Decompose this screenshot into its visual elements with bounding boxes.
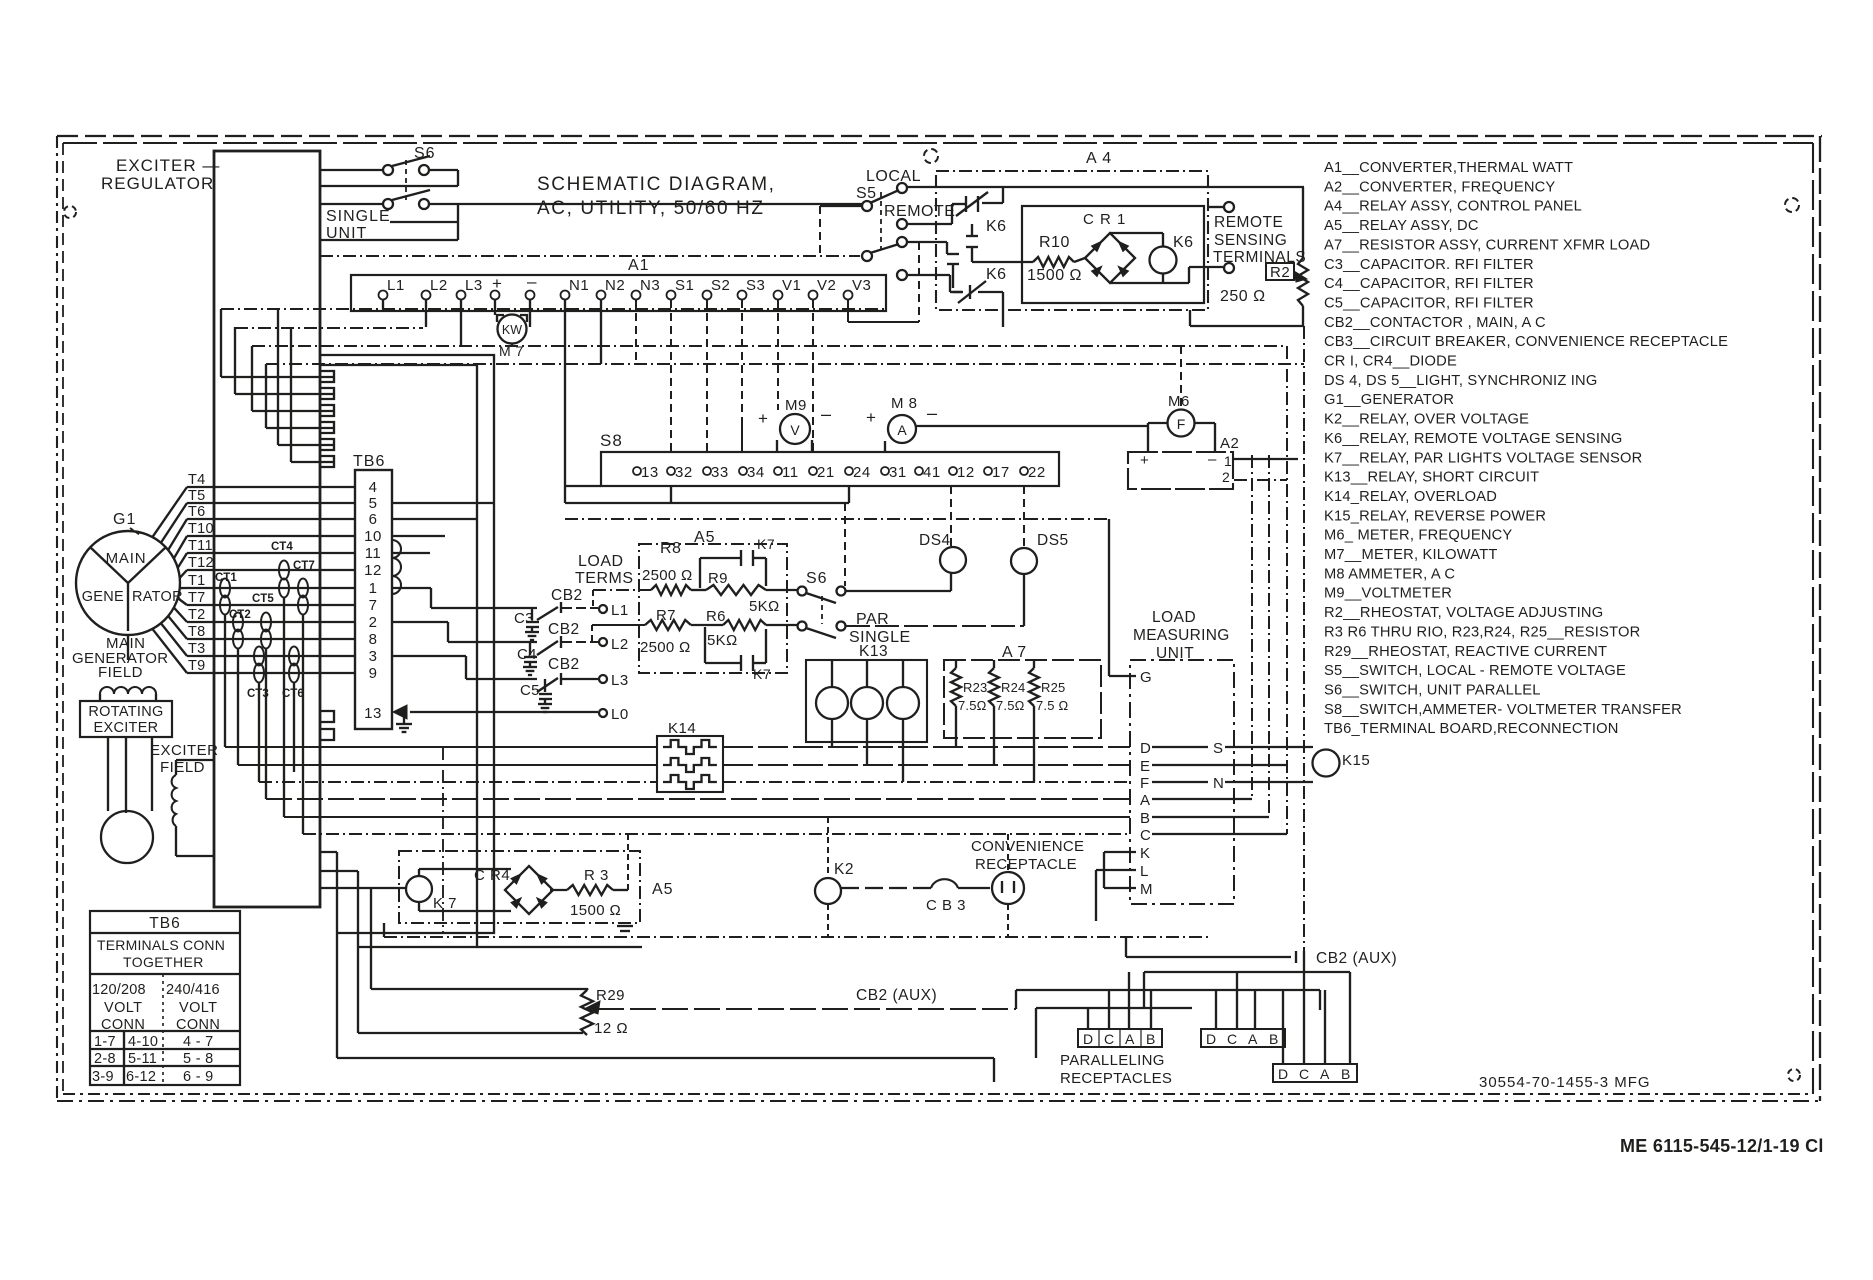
svg-text:RECEPTACLES: RECEPTACLES <box>1060 1070 1172 1087</box>
wire bus y519 <box>565 518 1109 520</box>
svg-text:R8: R8 <box>660 540 681 557</box>
wire LMU G feed <box>1108 519 1110 676</box>
wire T9 <box>187 672 355 674</box>
svg-text:R2__RHEOSTAT, VOLTAGE ADJUSTI: R2__RHEOSTAT, VOLTAGE ADJUSTING <box>1324 605 1603 621</box>
wire right bus 1304 <box>1303 326 1305 951</box>
relay contact K7 lower <box>740 655 742 671</box>
exciter field coil <box>176 759 214 761</box>
svg-text:A5: A5 <box>694 529 716 546</box>
svg-text:K6: K6 <box>986 218 1007 235</box>
svg-text:A2: A2 <box>1220 435 1239 452</box>
svg-text:L1: L1 <box>611 602 629 619</box>
svg-text:CB2__CONTACTOR , MAIN, A C: CB2__CONTACTOR , MAIN, A C <box>1324 315 1546 331</box>
svg-text:C4__CAPACITOR, RFI FILTER: C4__CAPACITOR, RFI FILTER <box>1324 276 1534 292</box>
relay coil K6 <box>1150 247 1177 274</box>
wire A4 to terminals <box>1189 310 1191 326</box>
svg-text:LOAD: LOAD <box>578 553 624 570</box>
wire bus K <box>320 851 337 853</box>
wire CT6 secondary <box>293 682 295 772</box>
wire exciter leads <box>107 737 109 811</box>
svg-text:A2__CONVERTER, FREQUENCY: A2__CONVERTER, FREQUENCY <box>1324 179 1555 195</box>
current transformer CT2 <box>233 613 243 632</box>
wire bus y1008 <box>1036 1007 1192 1009</box>
svg-text:K: K <box>1140 845 1150 862</box>
svg-text:CT4: CT4 <box>271 541 293 553</box>
wire + to M7 <box>494 300 496 315</box>
svg-text:EXCITER —: EXCITER — <box>116 156 220 175</box>
svg-text:21: 21 <box>817 464 835 481</box>
current transformer CT7 <box>298 579 308 598</box>
svg-text:4-10: 4-10 <box>128 1034 158 1050</box>
wire T12 <box>187 569 355 571</box>
circuit breaker CB3 <box>931 879 958 888</box>
svg-text:V2: V2 <box>817 277 836 294</box>
svg-text:CT1: CT1 <box>215 572 237 584</box>
polarity mark <box>617 925 633 927</box>
svg-text:N2: N2 <box>605 277 625 294</box>
svg-text:A1__CONVERTER,THERMAL WATT: A1__CONVERTER,THERMAL WATT <box>1324 160 1573 176</box>
wire nest into regulator <box>220 309 222 377</box>
wire L1 drop <box>382 300 384 309</box>
wire S5 pole2 contact b <box>907 274 950 276</box>
svg-text:S8: S8 <box>600 431 623 450</box>
svg-text:CB2: CB2 <box>551 587 583 604</box>
wire LMU A row <box>1152 798 1252 800</box>
contactor CB2 aux contact <box>1126 956 1291 958</box>
svg-text:K14_RELAY, OVERLOAD: K14_RELAY, OVERLOAD <box>1324 489 1497 505</box>
wire bus y364 <box>266 363 1304 365</box>
svg-text:VOLT: VOLT <box>179 1000 217 1016</box>
relay contact K6 no.2 <box>966 235 978 237</box>
wire LMU E row <box>1152 764 1287 766</box>
svg-text:A1: A1 <box>628 257 650 274</box>
svg-text:R29__RHEOSTAT, REACTIVE CURR: R29__RHEOSTAT, REACTIVE CURRENT <box>1324 644 1607 660</box>
svg-text:DS5: DS5 <box>1037 532 1069 549</box>
svg-text:T2: T2 <box>188 607 206 623</box>
svg-text:–: – <box>1208 451 1217 468</box>
svg-text:R 3: R 3 <box>584 867 609 884</box>
svg-text:–: – <box>527 272 537 291</box>
wire S6mid drop <box>844 503 846 586</box>
wire R29 wiper <box>598 1008 1016 1010</box>
wire A2-2 <box>1234 479 1287 481</box>
svg-text:K 7: K 7 <box>433 895 457 912</box>
svg-text:K2__RELAY, OVER VOLTAGE: K2__RELAY, OVER VOLTAGE <box>1324 412 1529 428</box>
svg-text:T9: T9 <box>188 658 206 674</box>
wire N to K15 <box>1225 781 1313 783</box>
wire TB6-1 to CB2 L1 <box>392 587 431 589</box>
svg-text:5 - 8: 5 - 8 <box>183 1051 214 1067</box>
relay contact K6 no.3 <box>947 253 959 255</box>
wire bus y327 <box>235 327 423 329</box>
svg-text:T3: T3 <box>188 641 206 657</box>
wire bus y346 <box>252 345 1287 347</box>
wire V1 drop to S8-11 <box>777 300 779 410</box>
svg-text:L2: L2 <box>611 636 629 653</box>
svg-text:C3: C3 <box>514 610 534 627</box>
svg-text:5KΩ: 5KΩ <box>749 598 779 615</box>
svg-text:RECEPTACLE: RECEPTACLE <box>975 856 1077 873</box>
wire L3 lead <box>466 678 537 680</box>
svg-text:M6_ METER, FREQUENCY: M6_ METER, FREQUENCY <box>1324 528 1512 544</box>
wire K13 drops <box>831 719 833 747</box>
svg-text:R10: R10 <box>1039 234 1070 251</box>
svg-text:V1: V1 <box>782 277 801 294</box>
svg-text:8: 8 <box>369 631 378 648</box>
svg-text:C5__CAPACITOR, RFI FILTER: C5__CAPACITOR, RFI FILTER <box>1324 295 1534 311</box>
TB6 13 arrow and ground <box>393 705 407 719</box>
wire T4 <box>187 486 355 488</box>
svg-text:R9: R9 <box>708 570 728 587</box>
wire L2 drop <box>425 300 427 327</box>
relay contact K6 no.1 <box>965 196 967 212</box>
wire CT2 secondary <box>237 648 239 765</box>
svg-text:M6: M6 <box>1168 393 1190 410</box>
wire L1 lead <box>431 607 537 609</box>
wire bus B <box>284 816 1130 818</box>
wire S6 to DS4 <box>846 590 951 592</box>
svg-text:3-9: 3-9 <box>92 1069 114 1085</box>
svg-text:REGULATOR: REGULATOR <box>101 174 214 193</box>
svg-text:22: 22 <box>1028 464 1046 481</box>
svg-text:TB6: TB6 <box>353 453 385 470</box>
svg-text:M9__VOLTMETER: M9__VOLTMETER <box>1324 586 1452 602</box>
wire S1 drop to S8-32 <box>670 300 672 452</box>
svg-text:B: B <box>1341 1066 1350 1082</box>
svg-text:17: 17 <box>992 464 1010 481</box>
svg-text:2: 2 <box>369 614 378 631</box>
svg-text:D: D <box>1140 740 1151 757</box>
svg-text:CB2 (AUX): CB2 (AUX) <box>856 987 937 1004</box>
svg-text:FIELD: FIELD <box>98 664 143 681</box>
svg-text:6-12: 6-12 <box>126 1069 156 1085</box>
svg-text:41: 41 <box>923 464 941 481</box>
wire under A5 dc <box>477 946 642 948</box>
relay assembly A4 box <box>936 171 1208 310</box>
wire L1 to R8 <box>592 590 594 608</box>
wire bus D <box>225 746 657 748</box>
relay contact K7 upper <box>740 550 742 566</box>
svg-text:A 4: A 4 <box>1086 150 1112 167</box>
S5 linkage <box>880 192 882 250</box>
resistor R24 <box>989 668 999 706</box>
svg-text:G: G <box>1140 669 1152 686</box>
svg-text:F: F <box>1177 416 1186 432</box>
svg-text:A7__RESISTOR ASSY, CURRENT X: A7__RESISTOR ASSY, CURRENT XFMR LOAD <box>1324 237 1650 253</box>
svg-text:5-11: 5-11 <box>128 1051 157 1067</box>
terminal L2 <box>599 638 607 646</box>
svg-text:RATOR: RATOR <box>132 589 183 605</box>
wire V3 drop <box>847 300 849 322</box>
svg-text:K13__RELAY, SHORT CIRCUIT: K13__RELAY, SHORT CIRCUIT <box>1324 470 1539 486</box>
wire N3 drop <box>635 300 637 364</box>
svg-text:TB6_TERMINAL BOARD,RECONNECTI: TB6_TERMINAL BOARD,RECONNECTION <box>1324 721 1619 737</box>
svg-text:M7__METER, KILOWATT: M7__METER, KILOWATT <box>1324 547 1498 563</box>
svg-text:240/416: 240/416 <box>166 982 220 998</box>
connector tabs on exciter-regulator <box>320 371 334 382</box>
svg-text:A 7: A 7 <box>1002 644 1027 661</box>
svg-text:TERMINALS CONN: TERMINALS CONN <box>97 937 225 953</box>
svg-text:7.5Ω: 7.5Ω <box>996 698 1025 713</box>
svg-text:30554-70-1455-3 MFG: 30554-70-1455-3 MFG <box>1479 1074 1651 1091</box>
wire T2 <box>187 621 355 623</box>
svg-text:CB2: CB2 <box>548 656 580 673</box>
svg-text:–: – <box>821 404 831 424</box>
wire right bus 1252 <box>1251 455 1253 799</box>
wire V2 drop to S8-21 <box>812 300 814 452</box>
svg-text:B: B <box>1269 1031 1278 1047</box>
svg-text:VOLT: VOLT <box>104 1000 142 1016</box>
svg-text:C4: C4 <box>517 646 537 663</box>
svg-text:A: A <box>897 422 907 438</box>
wire CT4 secondary <box>283 597 285 817</box>
wire K6 contact1 drop <box>1002 187 1004 203</box>
wire S8-32 drop <box>670 486 672 503</box>
wire N1 drop <box>564 300 566 503</box>
wire TB6-2 to CB2 L2 <box>392 621 448 623</box>
svg-text:T10: T10 <box>188 521 214 537</box>
wire K L M stubs <box>1104 851 1136 853</box>
svg-text:R29: R29 <box>596 987 625 1004</box>
svg-text:5: 5 <box>369 495 378 512</box>
svg-text:V: V <box>790 422 800 438</box>
wire K7 top <box>418 869 420 876</box>
svg-text:3: 3 <box>369 648 378 665</box>
wire S6 to DS5 <box>846 625 1024 627</box>
wire T11 <box>187 552 355 554</box>
svg-text:C: C <box>1140 827 1151 844</box>
wire T6 <box>187 518 355 520</box>
wire bus E <box>238 764 657 766</box>
svg-text:T1: T1 <box>188 573 206 589</box>
svg-text:A5: A5 <box>652 881 674 898</box>
svg-text:10: 10 <box>364 528 382 545</box>
svg-text:R2: R2 <box>1270 264 1290 281</box>
svg-text:T6: T6 <box>188 504 206 520</box>
svg-text:FIELD: FIELD <box>160 759 205 776</box>
svg-text:1-7: 1-7 <box>94 1034 116 1050</box>
svg-text:11: 11 <box>365 545 382 562</box>
wire A7 drops <box>955 706 957 747</box>
terminal L3 <box>599 675 607 683</box>
wire T5 <box>187 502 355 504</box>
svg-text:EXCITER: EXCITER <box>94 720 159 736</box>
svg-text:L3: L3 <box>465 277 483 294</box>
svg-text:7.5 Ω: 7.5 Ω <box>1036 698 1068 713</box>
wire R3 up <box>613 889 628 891</box>
wire CT3 secondary <box>258 682 260 782</box>
wire L2 to R7 <box>591 625 593 642</box>
svg-text:S: S <box>1213 740 1223 757</box>
svg-text:D: D <box>1206 1031 1216 1047</box>
svg-text:12: 12 <box>957 464 975 481</box>
svg-text:12: 12 <box>364 562 382 579</box>
svg-text:TB6: TB6 <box>149 915 180 932</box>
svg-text:TERMS: TERMS <box>575 570 634 587</box>
svg-text:ROTATING: ROTATING <box>88 704 163 720</box>
paralleling receptacle 2 <box>1201 1029 1285 1047</box>
wire T10 <box>187 535 355 537</box>
svg-text:T5: T5 <box>188 488 206 504</box>
wire S6 pole2 <box>320 203 383 205</box>
svg-text:2500 Ω: 2500 Ω <box>642 567 693 584</box>
exciter-regulator block <box>214 151 320 907</box>
relay assembly A5 dc box <box>399 851 640 923</box>
svg-text:31: 31 <box>889 464 907 481</box>
svg-text:1: 1 <box>369 580 378 597</box>
svg-text:K2: K2 <box>834 861 854 878</box>
wire CT5 secondary <box>265 648 267 799</box>
svg-text:C: C <box>1299 1066 1309 1082</box>
svg-text:CR I, CR4__DIODE: CR I, CR4__DIODE <box>1324 354 1457 370</box>
terminal L1 <box>599 605 607 613</box>
relay assembly A5 box <box>639 544 787 673</box>
svg-text:S3: S3 <box>746 277 765 294</box>
relay K15 reverse power <box>1313 750 1340 777</box>
wire S to K15 <box>1225 746 1313 748</box>
svg-text:PARALLELING: PARALLELING <box>1060 1052 1165 1069</box>
svg-text:1: 1 <box>1224 453 1232 469</box>
A1 terminals <box>379 291 388 300</box>
svg-text:32: 32 <box>675 464 693 481</box>
svg-text:F: F <box>1140 775 1149 792</box>
S6 linkage <box>405 160 407 200</box>
svg-text:A: A <box>1248 1031 1258 1047</box>
svg-text:24: 24 <box>853 464 871 481</box>
TB6 inductor jumpers <box>392 540 401 594</box>
svg-text:S1: S1 <box>675 277 694 294</box>
wire CT1 secondary <box>224 614 226 747</box>
svg-text:AC, UTILITY, 50/60 HZ: AC, UTILITY, 50/60 HZ <box>537 198 765 219</box>
wire DS5 drop <box>1023 486 1025 548</box>
svg-text:B: B <box>1146 1031 1155 1047</box>
wire R2 bottom bus <box>1190 325 1303 327</box>
wire T8 <box>187 638 355 640</box>
svg-text:7.5Ω: 7.5Ω <box>958 698 987 713</box>
svg-text:A: A <box>1320 1066 1330 1082</box>
svg-text:K15_RELAY, REVERSE POWER: K15_RELAY, REVERSE POWER <box>1324 508 1546 524</box>
wire S5 pole2 contact a <box>907 241 947 243</box>
svg-text:7: 7 <box>369 597 378 614</box>
svg-text:CONVENIENCE: CONVENIENCE <box>971 838 1084 855</box>
svg-text:R23: R23 <box>963 680 987 695</box>
svg-text:EXCITER: EXCITER <box>150 742 219 759</box>
current transformer CT6 <box>289 647 299 666</box>
svg-text:TOGETHER: TOGETHER <box>123 954 204 970</box>
svg-text:R3 R6 THRU RIO, R23,R24, R2: R3 R6 THRU RIO, R23,R24, R25__RESISTOR <box>1324 624 1640 640</box>
svg-text:K15: K15 <box>1342 752 1370 769</box>
svg-text:R6: R6 <box>706 608 726 625</box>
rheostat R2 <box>1266 263 1294 280</box>
wire bus y309 <box>221 308 886 310</box>
svg-text:L2: L2 <box>430 277 448 294</box>
wire bus y937 <box>384 936 1208 938</box>
svg-text:C B 3: C B 3 <box>926 897 966 914</box>
svg-text:+: + <box>492 274 502 293</box>
svg-text:T12: T12 <box>188 555 214 571</box>
svg-text:L1: L1 <box>387 277 405 294</box>
wire wrap path 2 <box>321 365 477 947</box>
svg-text:N3: N3 <box>640 277 660 294</box>
current transformer CT4 <box>279 561 289 580</box>
generator T leads <box>152 487 187 537</box>
svg-text:D: D <box>1083 1031 1093 1047</box>
svg-text:K6: K6 <box>986 266 1007 283</box>
svg-text:11: 11 <box>782 464 799 481</box>
svg-text:12 Ω: 12 Ω <box>594 1020 628 1037</box>
svg-text:S6: S6 <box>806 570 828 587</box>
svg-text:M8 AMMETER, A C: M8 AMMETER, A C <box>1324 566 1455 582</box>
resistor R23 <box>951 668 961 706</box>
wire T3 <box>187 655 355 657</box>
S8 terminals <box>633 467 641 475</box>
wire contact4 to A4 bottom <box>1002 292 1004 310</box>
wire M8 to right <box>916 425 1148 427</box>
wire TB6-3 to CB2 L3 <box>392 655 466 657</box>
wire T7 <box>187 604 355 606</box>
wire L2 lead <box>448 641 537 643</box>
wire nest verticals lower <box>277 308 279 310</box>
A4 inner box <box>1022 206 1204 303</box>
svg-text:K14: K14 <box>668 720 696 737</box>
svg-text:C R 1: C R 1 <box>1083 211 1126 228</box>
svg-text:GENE: GENE <box>82 589 124 605</box>
svg-text:REMOTE: REMOTE <box>884 203 955 220</box>
wire bus L <box>320 870 358 872</box>
svg-text:+: + <box>1140 452 1149 469</box>
svg-text:1500 Ω: 1500 Ω <box>1027 267 1082 284</box>
svg-text:CB3__CIRCUIT BREAKER, CONVEN: CB3__CIRCUIT BREAKER, CONVENIENCE RECEPT… <box>1324 334 1728 350</box>
wire CT7 secondary <box>302 614 304 834</box>
svg-text:SCHEMATIC DIAGRAM,: SCHEMATIC DIAGRAM, <box>537 174 776 195</box>
wire LMU F-N row <box>1152 781 1208 783</box>
wire K7 bottom <box>418 902 420 911</box>
wire bus F <box>259 781 657 783</box>
svg-text:LOCAL: LOCAL <box>866 168 921 185</box>
svg-text:KW: KW <box>502 323 522 337</box>
wire S6 pole1 <box>320 169 383 171</box>
svg-text:6 - 9: 6 - 9 <box>183 1069 214 1085</box>
svg-text:–: – <box>927 403 937 423</box>
svg-text:MEASURING: MEASURING <box>1133 627 1230 644</box>
svg-text:CB2 (AUX): CB2 (AUX) <box>1316 950 1397 967</box>
wire DS4 drop <box>950 486 952 547</box>
svg-text:L3: L3 <box>611 672 629 689</box>
svg-text:ME 6115-545-12/1-19 Cl: ME 6115-545-12/1-19 Cl <box>1620 1136 1824 1156</box>
wire L3 drop <box>460 300 462 346</box>
paralleling receptacle 1 <box>1078 1029 1162 1047</box>
svg-text:S8__SWITCH,AMMETER- VOLTMETER: S8__SWITCH,AMMETER- VOLTMETER TRANSFER <box>1324 702 1682 718</box>
wire S5 feeds <box>819 206 821 256</box>
wire minus drop <box>529 300 531 327</box>
wire bus y503 <box>565 502 849 504</box>
svg-text:G1: G1 <box>113 511 136 528</box>
svg-text:CT7: CT7 <box>293 560 315 572</box>
wire local sense y187 <box>907 186 1304 188</box>
svg-text:R25: R25 <box>1041 680 1065 695</box>
wire to R10 <box>972 261 1033 263</box>
terminal strip A1 <box>351 275 886 311</box>
svg-text:K7__RELAY, PAR LIGHTS VOLTA: K7__RELAY, PAR LIGHTS VOLTAGE SENSOR <box>1324 450 1642 466</box>
svg-text:R24: R24 <box>1001 680 1025 695</box>
svg-text:N1: N1 <box>569 277 589 294</box>
relay contact K6 no.4 <box>969 285 971 299</box>
svg-text:V3: V3 <box>852 277 871 294</box>
main generator field coil <box>127 635 129 660</box>
svg-text:1500 Ω: 1500 Ω <box>570 902 621 919</box>
svg-text:34: 34 <box>747 464 765 481</box>
wire TB6 right stubs <box>392 502 494 504</box>
